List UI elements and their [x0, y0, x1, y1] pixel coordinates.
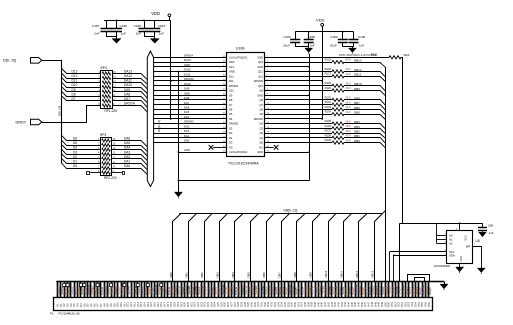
- power rail VDD (top-right): [295, 31, 353, 33]
- wire GND pin to GND rail: [265, 66, 309, 68]
- svg-text:DA10: DA10: [184, 82, 191, 86]
- svg-text:DA1: DA1: [184, 134, 190, 138]
- svg-text:Q0: Q0: [260, 141, 264, 145]
- wire bus DA to U10B row 7: [154, 85, 227, 87]
- wire RP3 row 5 to bus DA: [112, 159, 148, 166]
- svg-text:DB5: DB5: [354, 111, 360, 115]
- svg-text:1uF: 1uF: [359, 44, 364, 48]
- wire GND pin stub (EEPROM): [459, 264, 461, 268]
- resistor RP4 element 5: [102, 90, 111, 93]
- svg-text:D12: D12: [72, 74, 78, 78]
- label C80 1uF: [488, 223, 494, 235]
- svg-text:DB11: DB11: [340, 270, 344, 277]
- svg-text:RP2-220: RP2-220: [104, 176, 117, 180]
- svg-text:GND: GND: [184, 91, 190, 95]
- svg-text:1uF: 1uF: [159, 32, 164, 36]
- svg-text:U10B: U10B: [236, 47, 245, 51]
- wire RP3 row 7 to bus DA: [112, 169, 148, 175]
- svg-text:DA12: DA12: [124, 74, 132, 78]
- svg-text:DA10: DA10: [124, 83, 132, 87]
- wire DB8 drop to connector: [297, 214, 305, 282]
- wire D bus entry to RP3 row 3: [61, 145, 100, 150]
- resistor R135: [332, 122, 344, 125]
- capacitor C190: [349, 32, 359, 47]
- svg-text:DB13: DB13: [371, 270, 375, 277]
- svg-text:D8: D8: [72, 92, 76, 96]
- resistor R129: [332, 84, 344, 87]
- svg-text:D5: D5: [229, 112, 233, 116]
- resistor R136: [332, 127, 344, 130]
- wire bus DA to U10B row 12: [154, 109, 227, 111]
- svg-text:DA5: DA5: [124, 141, 130, 145]
- label C186 1uF: [120, 24, 128, 36]
- wire D bus entry to RP3 row 4: [61, 149, 100, 154]
- no-connect stub RP3 pin 8: [87, 172, 101, 175]
- svg-text:R136: R136: [325, 124, 332, 128]
- svg-text:GND: GND: [257, 150, 263, 154]
- wire D bus entry to RP4 row 3: [61, 77, 101, 82]
- wire DB2 to bus DB: [344, 134, 386, 139]
- svg-text:.01uF: .01uF: [282, 44, 290, 48]
- svg-text:DA11: DA11: [184, 72, 191, 76]
- wire bus DA to U10B row 11: [154, 104, 227, 106]
- power rail VDD (top-left): [104, 20, 171, 22]
- svg-text:D10: D10: [229, 89, 234, 93]
- wire RP4 row 8 to bus DA: [112, 106, 147, 112]
- svg-text:IRQ5: IRQ5: [428, 287, 432, 295]
- label C185 2nF: [134, 24, 142, 36]
- svg-text:R137: R137: [325, 129, 332, 133]
- wire U10B row 11 to resistor R132: [265, 104, 332, 106]
- svg-text:Q4: Q4: [260, 122, 264, 126]
- junction dots on VDD rail: [116, 20, 145, 22]
- wire DB3 to bus DB: [344, 129, 386, 134]
- wire U10B row 17 to resistor R137: [265, 133, 332, 135]
- junction dots on GND drop: [178, 71, 180, 182]
- wire RP4 row 7 to bus DA: [112, 101, 147, 108]
- junction dot SDA drop: [393, 255, 395, 257]
- wire DB1 to bus DB: [344, 138, 386, 144]
- svg-text:DB0: DB0: [169, 272, 173, 278]
- no-connect X (right): [274, 145, 279, 150]
- wire DB2 drop to connector: [205, 214, 212, 282]
- svg-text:C190: C190: [358, 35, 366, 39]
- wire DB11 to bus DB: [344, 77, 386, 82]
- resistor R134: [332, 113, 344, 116]
- wire DB4 drop to connector: [235, 214, 243, 282]
- wire DB11 drop to connector: [344, 214, 352, 282]
- wire U10B row 10 to resistor R131: [265, 99, 332, 101]
- junction dot GND: [308, 66, 310, 68]
- svg-text:DA3: DA3: [124, 150, 130, 154]
- svg-text:Q5: Q5: [260, 112, 264, 116]
- svg-text:1uF: 1uF: [310, 44, 315, 48]
- svg-text:DA8: DA8: [124, 92, 130, 96]
- svg-text:CLK/LATIQDAC: CLK/LATIQDAC: [229, 150, 248, 154]
- svg-text:49.9: 49.9: [346, 82, 351, 85]
- svg-text:DA1: DA1: [124, 160, 130, 164]
- svg-text:DRVDD: DRVDD: [254, 117, 263, 121]
- svg-text:DB12: DB12: [355, 270, 359, 277]
- wire RP3 row 4 to bus DA: [112, 155, 148, 161]
- svg-text:WP: WP: [466, 245, 471, 249]
- svg-text:DA0: DA0: [124, 164, 130, 168]
- wire RP4 row 3 to bus DA: [112, 83, 147, 89]
- svg-text:C183: C183: [283, 35, 291, 39]
- capacitor C187: [101, 20, 112, 36]
- svg-text:C189: C189: [330, 35, 338, 39]
- wire bus DA to U10B row 14: [154, 118, 227, 120]
- wire U10B row 12 to resistor R133: [265, 109, 332, 111]
- svg-text:DB13: DB13: [354, 58, 362, 62]
- svg-text:DA2: DA2: [124, 155, 130, 159]
- wire DB3 drop to connector: [220, 214, 228, 282]
- svg-text:DB8: DB8: [293, 272, 297, 278]
- svg-text:D2: D2: [73, 155, 77, 159]
- svg-text:D6: D6: [73, 137, 77, 141]
- capacitor C189: [338, 32, 348, 47]
- resistor RP3 element 2: [102, 144, 111, 147]
- wire DB10 to bus DB: [344, 86, 386, 92]
- resistor RP4 element 6: [102, 95, 111, 98]
- svg-text:NC: NC: [229, 145, 233, 149]
- svg-text:TXLC01K234xMRA: TXLC01K234xMRA: [228, 162, 259, 166]
- svg-text:D3: D3: [229, 127, 233, 131]
- svg-text:Q2: Q2: [260, 131, 264, 135]
- svg-text:GND: GND: [460, 256, 463, 262]
- svg-text:Q9: Q9: [260, 89, 264, 93]
- wire bus DA to U10B row 2: [154, 62, 227, 64]
- svg-text:D12: D12: [229, 74, 234, 78]
- wire GND pin to GND rail: [265, 95, 309, 97]
- svg-text:RP1-220: RP1-220: [105, 109, 118, 113]
- svg-text:D13: D13: [229, 65, 234, 69]
- wire DB5 drop to connector: [251, 214, 259, 282]
- svg-text:R135: R135: [325, 119, 332, 123]
- svg-text:DB[0..13]: DB[0..13]: [284, 208, 298, 212]
- svg-text:GND: GND: [229, 70, 235, 74]
- resistor pack RP4 box: [101, 71, 113, 109]
- label C188 1uF: [308, 35, 316, 48]
- svg-text:1uF: 1uF: [121, 32, 126, 36]
- wire VDD rail drop (left DRVDD): [170, 20, 172, 118]
- wire bus DA to U10B row 19: [154, 142, 227, 144]
- svg-text:R125: R125: [325, 58, 332, 62]
- svg-text:PC/104BUS_96: PC/104BUS_96: [59, 312, 81, 316]
- svg-text:DB7: DB7: [278, 272, 282, 278]
- wire D bus entry to RP3 row 1: [61, 135, 100, 140]
- wire cap pair3 bottom: [295, 46, 309, 48]
- svg-text:49.9: 49.9: [346, 106, 351, 109]
- bus DA[0..14] (vertical bus shape): [147, 51, 153, 187]
- junction dot DRVDD: [321, 80, 323, 82]
- op-amp U10B box (DAC IC): [227, 53, 265, 157]
- svg-text:C80: C80: [488, 223, 494, 227]
- svg-text:R133: R133: [325, 105, 332, 109]
- svg-text:DA9: DA9: [124, 88, 130, 92]
- label C183 .01uF: [282, 35, 291, 48]
- svg-text:24C02SM08: 24C02SM08: [434, 264, 450, 268]
- svg-text:2nF: 2nF: [94, 32, 99, 36]
- svg-text:B56: B56: [427, 301, 431, 306]
- wire jumper bracket outer: [408, 275, 430, 282]
- wire RP3 row 2 to bus DA: [112, 146, 148, 152]
- svg-text:VDD: VDD: [151, 11, 160, 16]
- svg-text:R130: R130: [325, 86, 332, 90]
- wire bus DA to U10B row 4: [154, 71, 227, 73]
- wire WP to ground: [472, 247, 481, 269]
- svg-text:DRDYA: DRDYA: [184, 53, 193, 57]
- wire U10B row 13 to resistor R134: [265, 114, 332, 116]
- svg-text:Q6: Q6: [260, 108, 264, 112]
- wire DRVDD pin to VDD rail: [265, 80, 322, 82]
- svg-text:D10: D10: [72, 83, 78, 87]
- svg-text:DB9: DB9: [309, 272, 313, 278]
- wire D bus entry to RP4 row 1: [61, 68, 101, 73]
- capacitor C186: [111, 20, 122, 36]
- junction dot GND: [308, 151, 310, 153]
- wire DB0 drop to connector: [173, 214, 181, 282]
- junction dot DRVDD: [321, 118, 323, 120]
- resistor RP3 element 8: [102, 171, 111, 174]
- wire connector top rail: [56, 281, 444, 283]
- label C189 .01uF: [329, 35, 338, 48]
- ground (connector right): [440, 282, 448, 291]
- ground (pair4): [349, 47, 357, 54]
- svg-text:49.9: 49.9: [346, 130, 351, 133]
- svg-text:GND: GND: [184, 148, 190, 152]
- wire DB7 to bus DB: [344, 105, 386, 111]
- svg-text:CLK/LATIQDAC: CLK/LATIQDAC: [229, 55, 248, 59]
- svg-text:D11: D11: [229, 79, 234, 83]
- resistor R133: [332, 108, 344, 111]
- svg-text:DA13: DA13: [184, 58, 191, 62]
- svg-text:DA6: DA6: [124, 137, 130, 141]
- svg-text:DA12: DA12: [184, 68, 191, 72]
- connector P1 body: [54, 298, 433, 311]
- svg-text:D7: D7: [229, 103, 233, 107]
- svg-text:GND: GND: [184, 63, 190, 67]
- svg-text:R132: R132: [325, 100, 332, 104]
- resistor RP3 element 7: [102, 167, 111, 170]
- svg-text:DA4: DA4: [184, 115, 190, 119]
- wire bus DA to U10B row 18: [154, 137, 227, 139]
- svg-text:DRVDD: DRVDD: [254, 79, 263, 83]
- wire bus DA to U10B row 16: [154, 128, 227, 130]
- svg-text:D11: D11: [72, 79, 78, 83]
- junction dot VCC: [459, 222, 461, 224]
- svg-text:R134: R134: [325, 110, 332, 114]
- wire D bus entry to RP4 row 4: [61, 82, 101, 88]
- capacitor C184: [149, 20, 160, 36]
- capacitor C188: [304, 32, 314, 47]
- svg-text:DA9: DA9: [184, 87, 190, 91]
- wire bus DA to U10B row 8: [154, 90, 227, 92]
- svg-text:P1: P1: [50, 312, 54, 316]
- wire U10B row 8 to resistor R130: [265, 90, 332, 92]
- wire bus DA to U10B row 13: [154, 114, 227, 116]
- svg-text:NC: NC: [259, 145, 263, 149]
- svg-text:GND: GND: [257, 55, 263, 59]
- svg-text:2nF: 2nF: [136, 32, 141, 36]
- wire GND bottom-left pin: [178, 152, 227, 154]
- wire VCC pin stub: [459, 223, 461, 231]
- resistor RP3 element 5: [102, 157, 111, 160]
- wire DB9 to bus DB: [344, 91, 386, 96]
- svg-text:D0: D0: [229, 141, 233, 145]
- wire D bus entry to RP3 row 7: [61, 163, 100, 169]
- wire bus DA to U10B row 17: [154, 133, 227, 135]
- resistor RP4 element 8: [102, 104, 111, 107]
- wire A0 A1 A2 tie: [437, 223, 448, 243]
- resistor pack RP3 box: [101, 138, 112, 176]
- svg-text:D4: D4: [73, 146, 77, 150]
- wire RP3 row 6 to bus DA: [112, 164, 148, 170]
- label C187 2nF: [92, 24, 100, 36]
- svg-text:D2: D2: [229, 131, 233, 135]
- connector P1 pin numbers (tiny rotated): [56, 301, 431, 306]
- wire RP4 row 2 to bus DA: [112, 79, 147, 85]
- power symbol VDD (top-right): [316, 17, 325, 31]
- svg-text:SDA: SDA: [449, 254, 455, 258]
- svg-text:DA7: DA7: [184, 101, 190, 105]
- wire NC left with no-connect X: [213, 147, 227, 149]
- ground (below U10B): [175, 193, 183, 199]
- wire DB5 to bus DB: [344, 115, 386, 120]
- svg-text:R139: R139: [325, 138, 332, 142]
- wire DB13 drop to connector: [375, 214, 383, 282]
- svg-text:D1: D1: [229, 136, 233, 140]
- op-amp U8 box (EEPROM 24C02): [447, 231, 473, 264]
- svg-text:D5: D5: [73, 141, 77, 145]
- bus DB[0..13] horizontal: [179, 210, 386, 213]
- svg-text:DA13: DA13: [124, 69, 132, 73]
- wire D bus entry to RP4 row 7: [61, 96, 101, 101]
- svg-text:DA0: DA0: [184, 139, 190, 143]
- wire D bus entry to RP4 row 6: [61, 91, 101, 96]
- svg-text:Q8: Q8: [260, 98, 264, 102]
- ground (EEPROM): [456, 268, 464, 274]
- wire DB12 drop to connector: [359, 214, 367, 282]
- resistor R126: [332, 70, 344, 73]
- svg-text:DRVDD: DRVDD: [184, 77, 194, 81]
- wire DB9 drop to connector: [313, 214, 321, 282]
- wire D bus entry to RP3 row 2: [61, 140, 100, 146]
- svg-text:DB2: DB2: [354, 130, 360, 134]
- svg-text:DA3: DA3: [184, 125, 190, 129]
- svg-text:DA4: DA4: [124, 146, 130, 150]
- svg-text:Q10: Q10: [258, 84, 263, 88]
- connector P1 pins: [58, 282, 429, 298]
- wire cap pair4 bottom: [343, 46, 354, 48]
- svg-text:DRVDD: DRVDD: [184, 120, 194, 124]
- port D[0..15]: [3, 58, 42, 64]
- wire U10B row 2 to resistor R125: [265, 62, 332, 64]
- wire cap pair2 bottom: [144, 36, 155, 38]
- svg-text:D[0..15]: D[0..15]: [57, 106, 61, 116]
- resistor RP4 element 3: [102, 81, 111, 84]
- svg-text:D9: D9: [72, 88, 76, 92]
- wire DB12 to bus DB: [344, 72, 386, 78]
- svg-text:Q1: Q1: [260, 136, 264, 140]
- wire jumper bracket inner: [415, 278, 425, 282]
- wire RP4 row 5 to bus DA: [112, 92, 147, 99]
- wire rail to connector drop: [399, 223, 401, 281]
- svg-text:D7: D7: [72, 97, 76, 101]
- resistor R131: [332, 98, 344, 101]
- resistor R161: [389, 56, 401, 59]
- svg-text:49.9: 49.9: [346, 101, 351, 104]
- wire D bus entry to RP4 row 5: [61, 87, 101, 92]
- svg-text:C188: C188: [308, 35, 316, 39]
- svg-text:VDD: VDD: [316, 17, 325, 22]
- svg-text:DB4: DB4: [231, 272, 235, 278]
- svg-text:49.9: 49.9: [346, 125, 351, 128]
- svg-text:A2: A2: [449, 242, 453, 246]
- svg-text:VCC: VCC: [465, 235, 468, 240]
- resistor RP4 element 4: [102, 86, 111, 89]
- wire DRVDD pin to VDD rail: [265, 118, 322, 120]
- wire D bus entry to RP4 row 2: [61, 73, 101, 79]
- svg-text:DRDYA: DRDYA: [124, 102, 136, 106]
- wire DB1 drop to connector: [189, 214, 197, 282]
- wire NC right with no-connect X: [265, 147, 274, 149]
- wire DB4 to bus DB: [344, 124, 386, 130]
- svg-text:DRX: DRX: [229, 60, 235, 64]
- wire GND drop (left of U10B): [178, 72, 180, 193]
- wire U10B row 15 to resistor R135: [265, 123, 332, 125]
- svg-text:GND: GND: [257, 65, 263, 69]
- svg-text:RP4: RP4: [101, 66, 107, 70]
- wire GND pin to GND rail: [265, 152, 309, 154]
- resistor RP3 element 1: [102, 139, 111, 142]
- wire bus DA to U10B row 6: [154, 80, 227, 82]
- svg-text:1uF: 1uF: [489, 231, 494, 235]
- wire RP4 row 4 to bus DA: [112, 88, 147, 94]
- svg-text:R129: R129: [325, 81, 332, 85]
- wire GND return rail: [178, 180, 309, 182]
- power symbol VDD (top-left): [151, 11, 171, 20]
- capacitor C80: [478, 223, 487, 232]
- resistor RP4 element 7: [102, 99, 111, 102]
- wire D bus from port: [42, 61, 62, 164]
- svg-text:DA[0..14]: DA[0..14]: [157, 120, 161, 132]
- svg-text:DB6: DB6: [262, 272, 266, 278]
- wire bus DA to U10B row 10: [154, 99, 227, 101]
- junction dots on VDD drop (left): [170, 80, 172, 120]
- junction dots top-right rail: [308, 31, 344, 33]
- wire DB0 to bus DB: [344, 143, 386, 149]
- svg-text:DA5: DA5: [184, 110, 190, 114]
- wire U10B row 18 to resistor R138: [265, 137, 332, 139]
- svg-text:49.9: 49.9: [346, 87, 351, 90]
- junction dot GND: [308, 94, 310, 96]
- resistor RP3 element 3: [102, 148, 111, 151]
- svg-text:49.9: 49.9: [346, 139, 351, 142]
- svg-text:DRDY: DRDY: [16, 120, 27, 124]
- ground (pair1): [112, 36, 121, 43]
- ground (WP): [478, 269, 486, 275]
- connector P1 net-name band (tiny rotated labels): [57, 284, 432, 294]
- resistor RP3 element 4: [102, 153, 111, 156]
- svg-text:D4: D4: [229, 117, 233, 121]
- svg-text:Q3: Q3: [260, 127, 264, 131]
- svg-text:R138: R138: [325, 133, 332, 137]
- svg-text:.01uF: .01uF: [329, 44, 337, 48]
- label C190 1uF: [358, 35, 366, 48]
- svg-text:D[0..15]: D[0..15]: [3, 58, 16, 62]
- wire GND rail (right): [309, 54, 311, 181]
